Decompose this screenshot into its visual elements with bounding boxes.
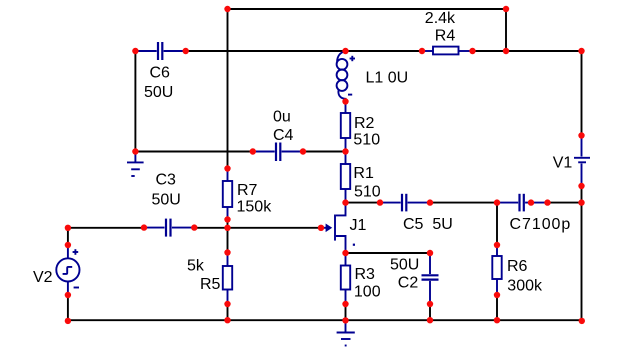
- wire row2 left segment: [186, 50, 422, 52]
- wire row2 right segment: [473, 50, 582, 52]
- wire R7 bottom to gate row to R5 top: [227, 220, 229, 253]
- node C4 right: [300, 148, 306, 154]
- svg-text:R7: R7: [237, 182, 258, 199]
- node J1 source junction: [342, 250, 348, 256]
- wire R3 bottom to bus: [345, 304, 347, 320]
- svg-text:C7100p: C7100p: [510, 216, 572, 233]
- battery V1: [574, 136, 590, 187]
- svg-text:50U: 50U: [390, 256, 419, 273]
- resistor R3: [341, 253, 350, 304]
- svg-text:R5: R5: [200, 276, 221, 293]
- wire row3 ground to C4: [135, 151, 252, 153]
- node C5 left: [377, 199, 383, 205]
- ground 1: [127, 152, 144, 177]
- node R2 R1 junction: [342, 148, 348, 154]
- svg-text:100: 100: [354, 284, 381, 301]
- svg-text:R2: R2: [354, 115, 375, 132]
- node bus x497: [494, 317, 500, 323]
- wire drain row C7 to V1: [548, 202, 582, 204]
- V2 plus mark: [73, 249, 79, 255]
- node top-left junction: [224, 6, 230, 12]
- svg-text:R6: R6: [507, 258, 528, 275]
- node V2 plus terminal: [65, 242, 71, 248]
- resistor R5: [223, 253, 232, 305]
- wire bottom bus: [68, 319, 582, 321]
- node R7 top: [224, 165, 230, 171]
- node C6 left: [132, 48, 138, 54]
- node R6 top terminal: [494, 242, 500, 248]
- svg-text:R3: R3: [355, 266, 376, 283]
- svg-text:R1: R1: [353, 165, 374, 182]
- capacitor C4: [253, 143, 303, 162]
- wire V2 top: [67, 228, 69, 245]
- wire drain row J1 to C5: [346, 202, 381, 204]
- node J1 gate: [318, 225, 324, 231]
- svg-text:300k: 300k: [507, 277, 543, 294]
- wire R5 bottom to bus: [227, 304, 229, 320]
- node bus left corner: [65, 318, 71, 324]
- wire R6 node down: [496, 203, 498, 245]
- node top-right junction: [503, 6, 509, 12]
- node ground1: [132, 148, 138, 154]
- wire C2 bottom to bus: [429, 304, 431, 320]
- wire V1 bottom to bus: [581, 186, 583, 320]
- svg-text:50U: 50U: [152, 191, 181, 208]
- node R7 bottom: [224, 216, 230, 222]
- wire row3 C4 to R2 node: [303, 151, 346, 153]
- svg-text:510: 510: [354, 184, 381, 201]
- inductor L1: [337, 51, 348, 102]
- capacitor C5: [380, 194, 430, 212]
- capacitor C2: [422, 253, 439, 304]
- node row2 x506 junction: [503, 48, 509, 54]
- node J1 drain: [342, 199, 348, 205]
- node bus ground2: [342, 317, 348, 323]
- L1 minus mark: [348, 94, 352, 96]
- V2 minus mark: [74, 287, 79, 289]
- svg-text:50U: 50U: [144, 84, 173, 101]
- svg-text:C3: C3: [156, 172, 177, 189]
- node V1 top terminal: [578, 132, 584, 138]
- resistor R4: [422, 47, 473, 55]
- svg-text:L1 0U: L1 0U: [366, 69, 409, 86]
- wire R6 bottom to bus: [496, 295, 498, 320]
- resistor R1: [341, 152, 350, 203]
- source V2: [56, 245, 79, 295]
- node C2 top: [427, 250, 433, 256]
- resistor R7: [223, 169, 232, 220]
- node L1 bottom: [342, 98, 348, 104]
- wire vertical x227 top to R7: [227, 9, 229, 169]
- node drain row V1 junction: [578, 199, 584, 205]
- ground 2: [337, 320, 355, 345]
- svg-text:V2: V2: [33, 269, 53, 286]
- node L1 top: [342, 48, 348, 54]
- node R5 top: [224, 249, 230, 255]
- node R4 left: [419, 48, 425, 54]
- node C2 bottom: [427, 301, 433, 307]
- svg-text:2.4k: 2.4k: [425, 10, 456, 27]
- svg-text:V1: V1: [553, 154, 573, 171]
- node V2 minus terminal: [65, 292, 71, 298]
- svg-text:C5 5U: C5 5U: [403, 216, 453, 233]
- wire top bus: [228, 8, 507, 10]
- svg-text:510: 510: [353, 132, 380, 149]
- node bus x227: [224, 317, 230, 323]
- wire gate row left segment: [68, 227, 144, 229]
- node row2 V1 corner: [578, 48, 584, 54]
- capacitor C6: [136, 42, 185, 60]
- resistor R6: [492, 245, 501, 295]
- resistor R2: [341, 102, 350, 152]
- svg-text:R4: R4: [435, 27, 456, 44]
- wire V1 top: [581, 51, 583, 136]
- node C5 right: [427, 199, 433, 205]
- capacitor C7: [497, 194, 548, 212]
- wire vertical x135 C6 to ground: [134, 51, 136, 152]
- svg-text:J1: J1: [350, 217, 367, 234]
- node V1 bottom terminal: [578, 183, 584, 189]
- node C3 right: [191, 224, 197, 230]
- wire vertical right of top bus: [505, 9, 507, 51]
- wire V2 bottom: [67, 295, 69, 320]
- node bus right corner: [579, 318, 585, 324]
- node C3 left: [141, 224, 147, 230]
- node R3 bottom: [342, 301, 348, 307]
- node C7 right: [528, 199, 534, 205]
- node gate row left corner: [65, 225, 71, 231]
- transistor J1 (n-JFET): [321, 203, 355, 253]
- node R5 bottom: [224, 301, 230, 307]
- svg-text:5k: 5k: [187, 257, 205, 274]
- node C4 left: [250, 148, 256, 154]
- capacitor C3: [145, 219, 194, 237]
- node C7 wire junction: [544, 199, 550, 205]
- node R6 bottom: [494, 292, 500, 298]
- node bus x430: [427, 317, 433, 323]
- node gate row x227 junction: [224, 225, 230, 231]
- node R4 right: [469, 48, 475, 54]
- node R6 top junction: [494, 199, 500, 205]
- wire drain row C5 to R6 node: [430, 202, 497, 204]
- svg-text:C4: C4: [273, 127, 294, 144]
- node C6 right: [183, 48, 189, 54]
- svg-text:C6: C6: [150, 64, 171, 81]
- svg-text:150k: 150k: [237, 198, 273, 215]
- L1 plus mark: [350, 56, 355, 61]
- svg-text:C2: C2: [398, 275, 419, 292]
- svg-text:0u: 0u: [273, 109, 291, 126]
- wire gate row right segment: [194, 227, 321, 229]
- wire source row J1 to C2: [346, 252, 431, 254]
